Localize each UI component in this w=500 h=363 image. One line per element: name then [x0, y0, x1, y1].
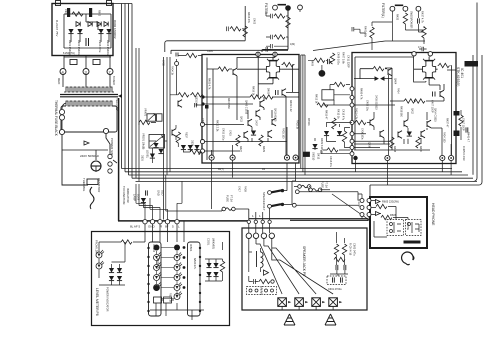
terminal amp2 bottom 1 [353, 156, 357, 160]
resistor R505 vertical [176, 132, 180, 143]
resistor R502 [191, 93, 202, 97]
wire mid2 [324, 85, 350, 106]
svg-text:C402: C402 [162, 60, 165, 66]
svg-text:RED: RED [57, 78, 61, 85]
wire q401 down [170, 66, 203, 95]
wire top right [385, 11, 425, 44]
wire row into box [145, 221, 184, 242]
svg-text:D403 S10510: D403 S10510 [375, 95, 378, 110]
wire amp2 outside right [460, 110, 462, 140]
svg-text:C417: C417 [238, 186, 241, 192]
svg-text:1(M): 1(M) [290, 43, 295, 46]
capacitor C604 [336, 265, 338, 270]
resistor R431 [283, 62, 294, 66]
arrow mark [84, 141, 89, 145]
svg-text:8F: 8F [165, 225, 169, 229]
terminal amp1 top 2 [273, 52, 277, 56]
transistor Q415 [244, 131, 248, 139]
fuse holder [91, 161, 101, 171]
resistor R400a [274, 14, 285, 18]
switch bar top right [395, 4, 403, 6]
diode near edge D413a [194, 145, 199, 150]
filter circle 2 [298, 5, 303, 10]
node c603 circle [271, 280, 274, 283]
wire right down bend [370, 55, 482, 197]
resistor R402 [186, 53, 197, 57]
LED column A [154, 245, 162, 291]
svg-text:8.2M(17%): 8.2M(17%) [63, 52, 75, 55]
headphone icon [399, 250, 416, 267]
resistor R601 [259, 279, 270, 283]
diode D512 [213, 263, 218, 268]
transistor Q407 [260, 100, 264, 108]
wire right vertical long [474, 3, 477, 182]
svg-text:R414: R414 [397, 88, 400, 94]
terminal 2 [83, 69, 89, 75]
svg-text:Q414 C1815: Q414 C1815 [434, 108, 437, 122]
svg-text:C417 100P: C417 100P [462, 118, 465, 131]
resistor R510 [121, 240, 132, 244]
svg-text:R605 220(2W): R605 220(2W) [382, 200, 399, 204]
wire primary left down [62, 135, 88, 185]
level meter box [92, 232, 230, 326]
capacitor C408 [263, 47, 271, 52]
svg-text:R409: R409 [311, 60, 314, 67]
wire amp2 rails [355, 57, 414, 150]
capacitor C509 [146, 190, 148, 195]
trimmer VR401 [147, 114, 156, 122]
resistor R501 [178, 93, 189, 97]
relay contact top [268, 189, 284, 195]
transistor Q401 [175, 62, 179, 66]
resistor R429 vertical [259, 135, 263, 146]
resistor R425 [327, 148, 338, 152]
wire thick bus [249, 219, 368, 221]
resistor R433 vertical [403, 13, 407, 24]
svg-text:D409 S10510: D409 S10510 [320, 138, 323, 154]
diode D509 [141, 198, 146, 203]
wire amp1 mid [260, 93, 299, 158]
svg-text:C415 100u: C415 100u [222, 128, 225, 141]
wire mid4 [315, 138, 350, 154]
transistor Q409b [370, 119, 374, 127]
svg-text:HEAD PHONE: HEAD PHONE [431, 203, 435, 226]
svg-text:C413 47u: C413 47u [329, 156, 332, 167]
terminal square left [56, 1, 61, 6]
terminal amp1 bottom 3 [284, 155, 289, 160]
resistor R603 vertical [334, 244, 338, 255]
diode D901 [68, 29, 73, 34]
triangle D601 [264, 270, 269, 275]
svg-text:Q412: Q412 [411, 108, 414, 115]
svg-text:D501: D501 [141, 155, 144, 161]
wire amp2 H stem [414, 57, 440, 91]
diode D504 [188, 145, 193, 150]
label IC401 black tag [465, 61, 479, 67]
filter circle 1 [273, 5, 278, 10]
capacitor C404 [176, 53, 178, 57]
svg-text:C405 10u: C405 10u [366, 100, 369, 111]
wire cluster top [177, 56, 202, 63]
fuse F601 [222, 207, 235, 211]
svg-text:R433 1k: R433 1k [296, 120, 299, 130]
IC501 body [188, 242, 201, 316]
label sprinkle amp2 [360, 78, 449, 153]
wire amp1 right [282, 65, 300, 70]
capacitor C904 [86, 38, 89, 46]
svg-text:R415 47: R415 47 [325, 110, 328, 120]
svg-text:SPEAKER JACK P8: SPEAKER JACK P8 [302, 246, 306, 276]
black square amp1 [205, 105, 209, 109]
capacitor C400b [271, 35, 273, 49]
resistor R605 [376, 204, 387, 208]
svg-text:Q411: Q411 [240, 116, 243, 122]
wire lm right [205, 242, 223, 281]
svg-text:C404: C404 [207, 50, 213, 53]
svg-text:Q404: Q404 [394, 78, 397, 85]
svg-text:Q405 C1815: Q405 C1815 [245, 100, 248, 115]
terminal square right [107, 1, 112, 6]
capacitor C407 [433, 92, 436, 97]
capacitor C501 [195, 103, 203, 107]
svg-text:IC501: IC501 [189, 244, 193, 252]
zener ZD901 [76, 22, 80, 27]
terminal amp1 bottom 2 [230, 155, 235, 160]
svg-text:8 RED: 8 RED [112, 76, 116, 86]
capacitor C410 [419, 47, 427, 51]
wire hp [371, 201, 408, 238]
resistor R905 [70, 60, 77, 65]
wire cluster low [176, 125, 202, 155]
resistor R406 [373, 67, 384, 71]
speaker jack box [242, 228, 367, 310]
svg-text:D407: D407 [255, 120, 258, 126]
svg-text:R501 56k: R501 56k [195, 96, 198, 107]
power darlington pair Q409/Q410 [265, 57, 282, 82]
resistor R901 [72, 12, 83, 16]
resistor R405 [218, 67, 229, 71]
xbox terminal 2 [295, 298, 304, 307]
junction circles row [247, 220, 271, 223]
diode D404 [380, 76, 384, 81]
svg-text:IC 401: IC 401 [460, 68, 464, 78]
terminal row above level meter [143, 220, 179, 224]
resistor R428 vertical [390, 137, 394, 148]
resistor R441 outside [459, 115, 463, 126]
capacitor C409 [328, 59, 330, 64]
svg-text:R517 1k: R517 1k [169, 293, 172, 303]
terminal primary left [59, 129, 64, 134]
wire amp2 low [354, 105, 451, 155]
terminal amp2 top 1 [412, 52, 416, 56]
svg-text:240V 50/60Hz: 240V 50/60Hz [80, 154, 100, 158]
wire spk diagonals [256, 244, 333, 294]
diode D902 [77, 29, 82, 34]
svg-text:Q413 A1015: Q413 A1015 [274, 108, 277, 122]
transistor Q416 [268, 130, 272, 138]
transformer T901 primary box [61, 106, 117, 132]
thermal fuse [62, 103, 66, 110]
node big black dot [319, 70, 326, 77]
svg-text:THERMAL: THERMAL [82, 178, 86, 192]
LED LD501 [96, 250, 104, 258]
diode D507 [117, 268, 122, 273]
resistor R420 [414, 99, 425, 103]
xbox terminal 1 [278, 298, 287, 307]
transistor Q408 [256, 110, 260, 118]
resistor R400c vertical [286, 17, 290, 28]
diode D407 [251, 131, 256, 136]
svg-text:C901: C901 [64, 9, 67, 16]
svg-text:86(T): 86(T) [218, 168, 224, 171]
terminal primary right [103, 128, 108, 133]
wire amp1 H stem [258, 57, 292, 98]
diode D408 [407, 132, 412, 137]
wire psu top bus [64, 14, 111, 30]
transistor Q405 [282, 89, 286, 97]
fuse F602 [298, 185, 311, 189]
LED single A6 [154, 285, 160, 291]
power supply box [52, 4, 113, 56]
capacitor C605 [344, 265, 346, 270]
relay out circle 1 [295, 190, 299, 194]
capacitor C902 [89, 8, 92, 17]
label sprinkle extra [63, 43, 446, 192]
trimmer VR402 [157, 114, 163, 121]
diode D503 [181, 145, 186, 150]
resistor R419 [262, 95, 273, 99]
svg-text:FILTER(L): FILTER(L) [381, 3, 385, 18]
resistor R404 vertical [243, 26, 247, 37]
svg-text:R417 560: R417 560 [227, 98, 230, 109]
triangle hp2 [376, 212, 381, 216]
svg-text:R424 100: R424 100 [443, 132, 446, 143]
zener ZD902 [88, 22, 92, 27]
resistor R418 [404, 99, 415, 103]
terminal amp1 left 3 [200, 149, 204, 153]
svg-text:LEVEL METER P8: LEVEL METER P8 [95, 288, 99, 316]
svg-text:C601 4700u: C601 4700u [328, 288, 342, 291]
wire amp2 diode row [354, 68, 392, 150]
label sprinkle top [64, 9, 399, 25]
resistor bottom R514 [154, 297, 162, 303]
capacitor C403 [227, 27, 246, 32]
diode D403 [375, 76, 379, 81]
dashed jack L [247, 287, 262, 295]
wire to speakers [282, 307, 333, 310]
resistor bottom R515 [164, 297, 172, 303]
terminal amp2 bottom 2 [385, 155, 390, 160]
voltage selector [108, 154, 112, 158]
thick chassis bus L [118, 98, 249, 221]
psu lower section wire [64, 55, 111, 70]
resistor R413 [334, 82, 345, 86]
IC502 body [149, 242, 162, 316]
relay contact bottom [268, 203, 284, 209]
wire amp1 bottom feeds [212, 145, 233, 155]
svg-text:C403: C403 [253, 18, 256, 25]
terminal amp2 bottom 4 [449, 155, 454, 160]
speaker box terminals [246, 233, 274, 238]
svg-text:R413 1k: R413 1k [315, 94, 318, 104]
wire manifold to terminals [136, 175, 182, 220]
IC pin dots [147, 247, 201, 312]
wire top feed [165, 6, 245, 52]
svg-text:R507: R507 [185, 132, 188, 138]
black tab amp2 right 2 [454, 131, 460, 137]
xbox arrows [288, 301, 342, 303]
svg-text:STK-4192(II): STK-4192(II) [456, 67, 460, 86]
speaker icon L [284, 314, 295, 325]
wire fuse right [294, 187, 330, 190]
terminal amp2 top 2 [428, 52, 432, 56]
filter circle R2 [403, 6, 408, 11]
wire mid3 [327, 123, 353, 148]
diode D904 [106, 29, 111, 34]
transistor Q411b [380, 130, 384, 138]
wire l601 [249, 248, 261, 272]
black tab amp2 right 1 [454, 111, 460, 116]
fuse F603 [309, 188, 322, 192]
power darlington pair Q410/Q412 [421, 57, 438, 82]
diode D903 [98, 29, 103, 34]
svg-text:R425 100: R425 100 [282, 128, 285, 139]
wire mid top [308, 60, 332, 70]
wire amp1 low [205, 110, 287, 155]
terminal amp1 bottom 1 [209, 155, 214, 160]
wire bundle top verticals [112, 4, 132, 179]
wire bundle horizontals [122, 169, 478, 182]
thermal resistor [87, 179, 98, 185]
transistor Q406 [440, 90, 444, 98]
svg-text:R429: R429 [262, 146, 265, 153]
svg-text:C501: C501 [201, 118, 204, 124]
terminal amp1 left 1 [200, 122, 204, 126]
terminal 3 [107, 69, 113, 75]
svg-text:POWER SW: POWER SW [110, 138, 114, 155]
resistor R423 vertical [342, 131, 346, 142]
svg-text:C415: C415 [229, 130, 232, 136]
diode cluster D411a [153, 143, 158, 148]
transistor Q501 [178, 100, 182, 108]
svg-text:R441 4.7: R441 4.7 [467, 132, 470, 143]
wire Q403 [237, 52, 275, 120]
middle column wires [301, 55, 305, 175]
LED LD502 [96, 261, 104, 269]
svg-text:RESISTOR: RESISTOR [97, 178, 101, 192]
svg-text:R428: R428 [393, 146, 396, 153]
diode D505 [109, 268, 114, 273]
resistor R506 [190, 150, 201, 154]
transistor Q403 [233, 68, 237, 76]
node amp1 left dot B [201, 102, 204, 105]
svg-text:R406 4.7k: R406 4.7k [360, 88, 363, 100]
svg-text:THERMAL FUSE BLACK: THERMAL FUSE BLACK [54, 100, 58, 137]
wire relay to hp [296, 192, 367, 219]
svg-text:R410 4.7k: R410 4.7k [355, 108, 358, 120]
resistor R401 vertical [370, 27, 374, 38]
capacitor C603 row [249, 276, 259, 284]
label sprinkle amp1 [208, 78, 293, 153]
resistor R503 [139, 120, 150, 124]
svg-text:R404 1k: R404 1k [171, 66, 174, 76]
transistor Q417 [421, 130, 425, 138]
zener ZD904 [104, 22, 108, 27]
resistor R421 vertical [332, 118, 336, 129]
diode D411 [312, 144, 317, 149]
wire led columns [157, 248, 178, 299]
resistor R430 vertical [416, 137, 420, 148]
wire amp1 left rails [207, 58, 232, 161]
svg-text:C406 100u: C406 100u [361, 128, 364, 140]
potentiometer VR501 [149, 135, 165, 149]
switch bar top center [278, 4, 287, 6]
terminal amp1 top 1 [256, 52, 260, 56]
wire right vertical 2 [472, 55, 474, 175]
transistor Q412a [404, 120, 408, 128]
wire r401 [360, 22, 392, 50]
transformer T901 secondary [63, 75, 110, 88]
diode D508 [117, 276, 122, 281]
wire diagonal feed [313, 41, 385, 51]
wire amp1 term down [212, 160, 452, 209]
capacitor C400a [271, 14, 273, 18]
terminal amp2 bottom 3 [440, 155, 445, 160]
wire ac line [62, 149, 108, 151]
head phone box [370, 197, 427, 248]
terminal 1 [60, 69, 66, 75]
resistor R415 [317, 103, 328, 107]
svg-text:R403 47k: R403 47k [247, 12, 250, 23]
power cord [90, 187, 94, 209]
wire psu bottom bus [64, 30, 111, 48]
svg-text:C405 0.033: C405 0.033 [462, 146, 466, 161]
dashed cap box [327, 276, 346, 285]
wire amp1 top rail [171, 8, 288, 54]
svg-text:GND: GND [148, 225, 156, 229]
black bar hp [404, 241, 421, 244]
svg-text:R437 47: R437 47 [446, 118, 449, 128]
terminal amp1 left 2 [200, 140, 204, 144]
wire amp1 bus97 [203, 97, 299, 104]
svg-text:C903 470u: C903 470u [98, 40, 101, 53]
resistor R403 [230, 27, 241, 31]
wire cluster mid [139, 122, 167, 163]
svg-text:R419 1k: R419 1k [252, 86, 255, 96]
diode D410 [337, 131, 342, 136]
label sprinkle right [462, 118, 470, 143]
relay out circle 2 [292, 203, 296, 207]
zener ZD903 [97, 22, 101, 27]
amplifier box L [202, 55, 299, 164]
resistor R411 vertical [330, 53, 334, 64]
svg-text:R439: R439 [244, 186, 247, 192]
resistor R606 [381, 215, 392, 219]
wire fuse line [166, 209, 249, 220]
resistor R605b [334, 257, 345, 261]
filter circle R3 [416, 6, 421, 11]
diode D501 [150, 154, 155, 159]
svg-text:R405 4.7k: R405 4.7k [208, 78, 211, 90]
diode D513 [213, 272, 218, 277]
relay coil box [322, 90, 334, 100]
wire hp grid stub [358, 194, 369, 220]
resistor R415b [355, 120, 366, 124]
svg-text:RY401: RY401 [307, 118, 310, 126]
speaker icon R [325, 314, 336, 325]
xbox terminal 3 [312, 298, 321, 307]
wire filter [266, 10, 300, 50]
